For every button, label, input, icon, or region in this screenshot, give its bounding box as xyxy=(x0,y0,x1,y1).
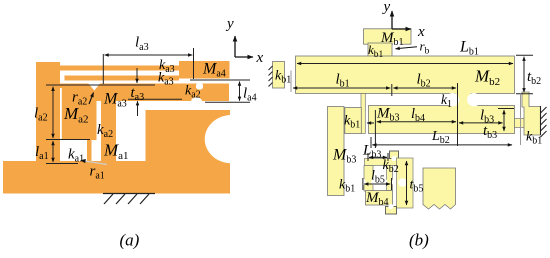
dimension t_b2 xyxy=(516,55,533,145)
svg-text:y: y xyxy=(382,0,391,15)
beam 2 left tab xyxy=(345,108,362,134)
flexure k_a1 column xyxy=(87,140,92,162)
hinge k_a2 notch bottom xyxy=(191,97,202,106)
mass M_b4 block xyxy=(366,191,393,206)
left column (lower mech) xyxy=(364,166,373,192)
hinge fillet white notch xyxy=(393,41,402,50)
k_1 connector between beams xyxy=(456,92,471,108)
beam2 neck xyxy=(515,119,525,128)
beam 1 (M_b2) xyxy=(296,56,515,94)
flexure rail k_a3 upper xyxy=(60,66,179,71)
dimension L_b2 xyxy=(372,144,512,146)
dimension l_b4 xyxy=(375,83,457,148)
hinge r_a2 leader arrow xyxy=(89,93,94,105)
svg-text:x: x xyxy=(256,50,264,66)
k_b1 leader arrow (beam2 left) xyxy=(367,122,374,124)
left tall bar xyxy=(36,62,60,162)
axes (a) xyxy=(235,36,253,57)
dimension l_a4 xyxy=(190,80,250,102)
hinge k_a2 notch top xyxy=(196,83,203,90)
plate M_a3 xyxy=(60,84,229,102)
flexure rail k_a3 lower xyxy=(65,76,180,81)
bottom hinge icon under M_b4 xyxy=(386,207,397,215)
k_b1 thin plate between beams xyxy=(361,94,365,134)
hinge r_a1 leader arrow xyxy=(81,160,108,164)
axes (b) xyxy=(392,11,411,29)
column k_a2 / mass M_a1 xyxy=(101,101,116,162)
end block at wall xyxy=(522,92,541,135)
dimension l_b5 xyxy=(363,178,392,190)
beam 2 main xyxy=(369,106,515,134)
left k_b1 block (fixed support) xyxy=(273,62,285,89)
middle narrow column (lower mech) xyxy=(387,166,393,191)
mass M_b1 block xyxy=(364,29,412,44)
dimension L_b1 xyxy=(297,63,513,65)
ground hatch xyxy=(103,194,155,205)
neck fillet notches xyxy=(515,109,523,117)
hinge r_b leader arrow xyxy=(396,47,418,49)
wall hatching xyxy=(541,106,547,137)
mass M_a4 block xyxy=(179,61,230,79)
M_b3 tall block xyxy=(328,107,345,196)
mini beam (lower mechanism) xyxy=(365,159,400,166)
gap between bar and M_a2 xyxy=(60,88,62,140)
svg-text:(b): (b) xyxy=(409,231,429,250)
rounded slot cap right xyxy=(467,93,480,106)
dimension t_b5 xyxy=(406,161,408,205)
svg-text:y: y xyxy=(225,16,234,32)
svg-text:(a): (a) xyxy=(120,231,140,250)
flexure k_b1 tab under M_b1 xyxy=(368,43,392,57)
base and right block (fixed frame) xyxy=(3,110,230,194)
dimension l_a2 xyxy=(46,87,90,140)
wide t_b5 column (lower mech) xyxy=(397,158,414,208)
rounded slot cap left xyxy=(446,93,459,106)
dimension l_a1 xyxy=(46,141,78,164)
left wall hatching xyxy=(269,66,273,87)
hinge r_a2 V-notch xyxy=(88,83,101,91)
dimension l_b1 / l_b2 xyxy=(291,71,456,97)
mass M_a2 block xyxy=(60,84,97,141)
dimension t_b3 xyxy=(498,109,514,132)
piezo block with wavy bottom xyxy=(423,168,456,209)
dimension L_b3 xyxy=(368,153,388,161)
k_b2 hinge icon xyxy=(390,151,399,159)
dimension l_a3 xyxy=(103,48,193,84)
dimension l_b3 xyxy=(459,122,503,124)
dimension t_a3 xyxy=(46,68,182,116)
